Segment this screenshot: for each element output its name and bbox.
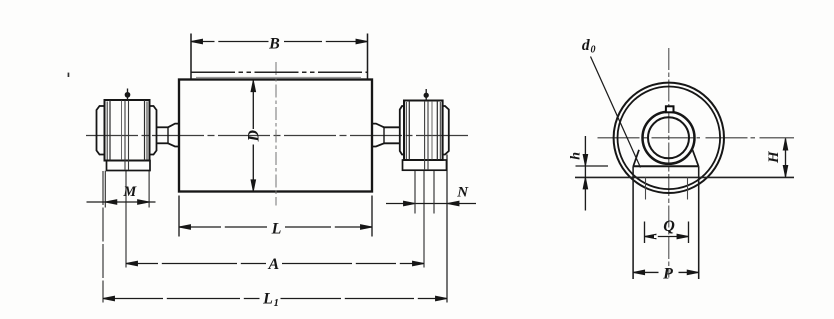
svg-text:H: H [766, 150, 782, 164]
svg-text:P: P [662, 265, 673, 282]
svg-text:d: d [582, 37, 590, 54]
svg-text:Q: Q [663, 218, 675, 235]
svg-text:A: A [267, 256, 279, 273]
svg-text:L: L [271, 221, 282, 238]
svg-text:0: 0 [591, 45, 596, 56]
svg-text:D: D [246, 129, 263, 142]
svg-text:L: L [262, 291, 273, 308]
svg-text:B: B [268, 35, 280, 52]
svg-text:1: 1 [274, 298, 279, 309]
svg-text:N: N [456, 185, 469, 201]
svg-text:M: M [122, 184, 137, 200]
svg-text:h: h [568, 152, 583, 160]
